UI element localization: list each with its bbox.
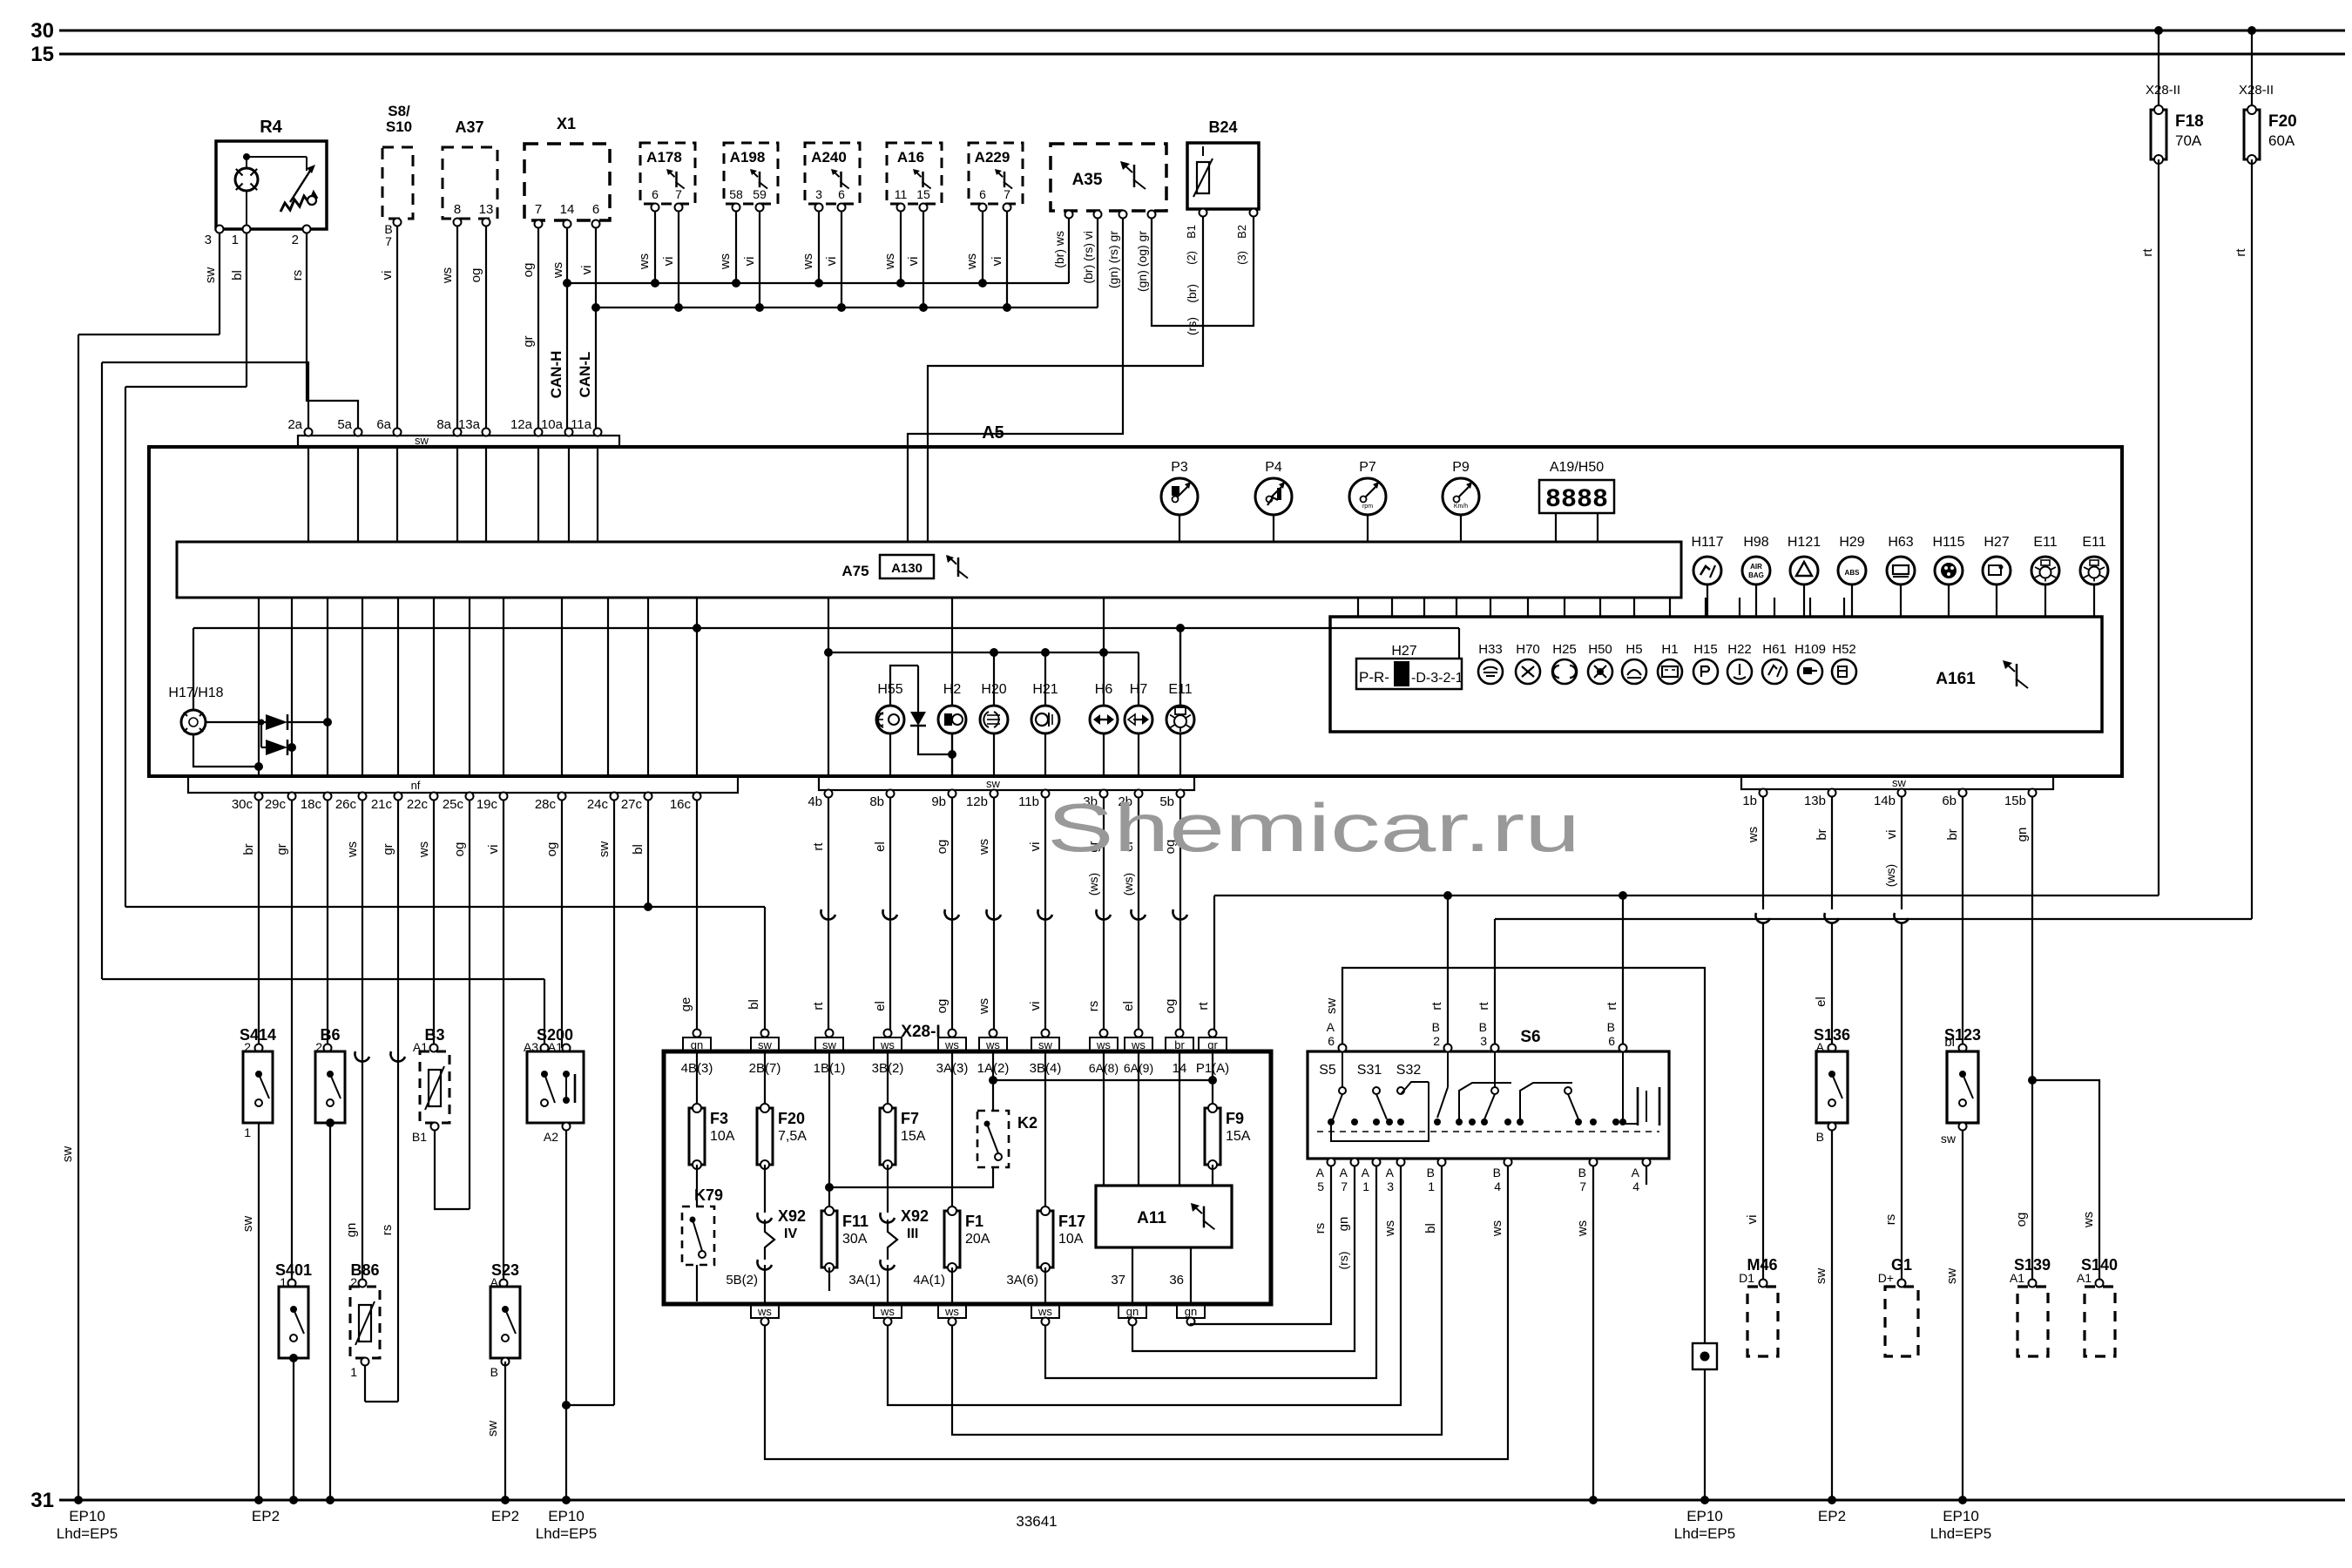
- svg-text:13b: 13b: [1804, 794, 1826, 808]
- svg-text:(rs): (rs): [1336, 1252, 1350, 1270]
- svg-text:sw: sw: [1941, 1132, 1957, 1146]
- svg-text:gn: gn: [2015, 828, 2030, 842]
- wire 26c to B86: [362, 800, 363, 1287]
- svg-text:ws: ws: [964, 253, 979, 270]
- wire A35-4 loop to B24: [1152, 216, 1254, 326]
- svg-text:F1: F1: [965, 1213, 983, 1230]
- wire H121 stem: [1803, 585, 1805, 617]
- svg-text:ws: ws: [977, 998, 991, 1015]
- svg-text:ws: ws: [440, 267, 455, 284]
- svg-text:H22: H22: [1727, 642, 1752, 657]
- svg-text:7: 7: [675, 187, 682, 201]
- X28-I pin 6A(9): [1135, 1030, 1143, 1037]
- fuse F7 15A: [887, 1051, 889, 1108]
- wire 14 to A11: [1179, 1051, 1180, 1186]
- wire A5 internal x578: [503, 598, 504, 776]
- svg-text:H15: H15: [1693, 642, 1718, 657]
- wire A5 internal x698: [607, 598, 609, 776]
- svg-text:B: B: [1578, 1166, 1586, 1179]
- wire K2 bottom to F11: [829, 1167, 993, 1187]
- strip pin 12b: [990, 790, 998, 798]
- wire 2a into A5: [308, 446, 309, 542]
- wire H117 stem: [1707, 585, 1708, 617]
- wire E11 stem top: [1179, 628, 1181, 706]
- wire branch to S140 (ws): [2032, 1080, 2099, 1283]
- wire stub H61: [1774, 598, 1775, 617]
- wire lamp stems: [993, 652, 995, 706]
- wire 3A(1) to S6-A3: [888, 1166, 1401, 1405]
- wire S136 to bus 31 (sw): [1831, 1130, 1833, 1500]
- svg-text:S6: S6: [1520, 1028, 1540, 1046]
- svg-text:59: 59: [753, 187, 767, 201]
- svg-text:vi: vi: [486, 845, 501, 855]
- svg-text:11a: 11a: [571, 417, 592, 432]
- svg-text:F18: F18: [2175, 112, 2204, 131]
- svg-text:vi: vi: [380, 271, 395, 280]
- control module A240: [805, 143, 860, 204]
- svg-text:7: 7: [385, 234, 392, 248]
- wire loop to S200-A3: [102, 978, 544, 980]
- B3 pin B1: [431, 1123, 439, 1131]
- svg-text:26c: 26c: [335, 797, 357, 812]
- svg-text:sw: sw: [415, 434, 429, 447]
- svg-text:3: 3: [205, 233, 212, 247]
- svg-text:el: el: [873, 1001, 888, 1011]
- strip pin 6a: [394, 429, 402, 436]
- svg-text:gn: gn: [1126, 1305, 1139, 1318]
- wire bl rail: [125, 906, 765, 908]
- svg-text:7: 7: [535, 202, 542, 217]
- svg-text:3: 3: [815, 187, 822, 201]
- svg-text:B: B: [1607, 1020, 1615, 1034]
- svg-text:B6: B6: [320, 1026, 340, 1044]
- svg-text:rs: rs: [1883, 1214, 1898, 1226]
- svg-text:ws: ws: [880, 1305, 895, 1318]
- svg-text:rt: rt: [2140, 248, 2155, 257]
- wire P7 stem: [1367, 515, 1369, 542]
- svg-text:H29: H29: [1839, 535, 1864, 550]
- svg-text:F20: F20: [778, 1110, 805, 1127]
- breakaway X92 IV: [764, 1165, 766, 1213]
- svg-text:A35: A35: [1072, 171, 1103, 189]
- X28-I pin 36: [1190, 1247, 1192, 1304]
- svg-text:ABS: ABS: [1845, 569, 1861, 577]
- wire A5 internal x297: [258, 598, 260, 776]
- wire S23 to bus 31: [504, 1362, 506, 1500]
- svg-text:A161: A161: [1936, 670, 1976, 688]
- svg-text:Lhd=EP5: Lhd=EP5: [57, 1525, 118, 1542]
- wire 11b down: [1044, 797, 1046, 1035]
- svg-text:Km/h: Km/h: [1454, 504, 1468, 510]
- svg-text:X28-II: X28-II: [2239, 83, 2274, 98]
- svg-text:ws: ws: [2081, 1212, 2096, 1228]
- svg-text:1: 1: [244, 1125, 251, 1139]
- fuse F17 10A: [1044, 1051, 1046, 1211]
- svg-text:P-R-: P-R-: [1359, 669, 1389, 686]
- svg-text:E11: E11: [2082, 535, 2105, 550]
- wire S6-A6 sw path: [1342, 968, 1705, 1343]
- wire bar-A161 stubs: [1357, 598, 1359, 617]
- svg-text:12b: 12b: [966, 794, 988, 809]
- svg-text:(2): (2): [1185, 251, 1198, 265]
- wire 11a into A5: [597, 446, 598, 542]
- svg-text:og: og: [469, 268, 483, 283]
- svg-text:9b: 9b: [931, 794, 946, 809]
- wire K2 top to F9 riser: [993, 1079, 1213, 1081]
- svg-text:(rs): (rs): [1185, 317, 1199, 335]
- svg-text:gn: gn: [344, 1223, 359, 1238]
- strip pin 24c: [611, 793, 618, 801]
- fuse F3 10A: [696, 1051, 698, 1108]
- control module A198: [724, 143, 778, 204]
- svg-text:ws: ws: [882, 253, 897, 270]
- svg-text:ws: ws: [1746, 827, 1761, 843]
- strip pin 22c: [430, 793, 438, 801]
- svg-text:ws: ws: [345, 841, 360, 858]
- wire 3b down: [1103, 797, 1105, 1035]
- svg-text:(gn) (og) gr: (gn) (og) gr: [1135, 231, 1149, 292]
- S200 pin A2: [563, 1123, 571, 1131]
- wire S6-B7 to bus 31: [1592, 1166, 1594, 1500]
- svg-text:A: A: [1362, 1166, 1370, 1179]
- svg-text:E11: E11: [2033, 535, 2057, 550]
- wire S6-B2 riser rt: [1447, 896, 1449, 1048]
- wire stub H22: [1739, 598, 1740, 617]
- svg-text:vi: vi: [1028, 1002, 1043, 1011]
- X28-I pin 3A(6): [1044, 1267, 1046, 1304]
- svg-text:6a: 6a: [376, 417, 391, 432]
- svg-text:27c: 27c: [621, 797, 643, 812]
- svg-text:4: 4: [1632, 1179, 1639, 1193]
- connector strip nf: [188, 776, 738, 793]
- strip pin 2a: [305, 429, 313, 436]
- wire stub H25: [1564, 598, 1565, 617]
- svg-text:13a: 13a: [458, 417, 481, 432]
- svg-text:ws: ws: [944, 1305, 959, 1318]
- svg-text:(br) (rs) vi: (br) (rs) vi: [1081, 231, 1095, 284]
- S6 bottom pins: [1328, 1159, 1335, 1166]
- driver module A161: [1330, 617, 2102, 732]
- wire A5 internal x498: [433, 598, 435, 776]
- wire S414 to bus 31: [258, 1123, 260, 1500]
- wire stub H15: [1705, 598, 1707, 617]
- svg-text:3A(6): 3A(6): [1006, 1273, 1038, 1288]
- svg-text:rs: rs: [380, 1225, 395, 1236]
- control module A178: [640, 143, 695, 204]
- svg-text:sw: sw: [758, 1038, 773, 1051]
- svg-text:25c: 25c: [443, 797, 464, 812]
- svg-text:sw: sw: [240, 1216, 255, 1233]
- icon H50 glyph: [1594, 666, 1606, 678]
- svg-text:el: el: [1121, 1001, 1136, 1011]
- svg-text:bl: bl: [747, 999, 761, 1010]
- svg-text:58: 58: [729, 187, 743, 201]
- svg-text:A229: A229: [975, 149, 1010, 166]
- icon H61 glyph: [1768, 666, 1777, 675]
- B24 pin B2: [1250, 209, 1258, 217]
- svg-text:rt: rt: [2234, 248, 2248, 257]
- wire P3 stem: [1179, 515, 1180, 542]
- svg-text:S8/: S8/: [388, 103, 410, 119]
- svg-text:4b: 4b: [808, 794, 822, 809]
- svg-text:18c: 18c: [301, 797, 322, 812]
- wire left drop 2: [125, 387, 126, 907]
- svg-text:br: br: [1174, 1038, 1185, 1051]
- svg-text:F17: F17: [1058, 1213, 1085, 1230]
- node CAN-H junction: [563, 279, 571, 287]
- svg-text:A178: A178: [646, 149, 682, 166]
- wire stub H70: [1527, 598, 1529, 617]
- svg-text:(br): (br): [1185, 284, 1199, 303]
- fuse F20 7,5A: [764, 1051, 766, 1108]
- svg-text:7,5A: 7,5A: [778, 1129, 807, 1144]
- svg-text:Lhd=EP5: Lhd=EP5: [1930, 1525, 1991, 1542]
- wire A35-3: [908, 218, 1123, 542]
- svg-text:III: III: [907, 1227, 918, 1241]
- svg-text:Lhd=EP5: Lhd=EP5: [536, 1525, 597, 1542]
- X28-I pin 4A(1): [951, 1267, 953, 1304]
- wire H2 internal: [951, 598, 953, 776]
- wire S401 to bus 31: [293, 1358, 294, 1500]
- svg-text:F7: F7: [901, 1110, 919, 1127]
- svg-text:gr: gr: [274, 843, 289, 855]
- svg-text:og: og: [452, 842, 467, 857]
- lamp H21 icon: [1036, 713, 1048, 726]
- wire 37 to S6-A7: [1132, 1166, 1355, 1351]
- wire H17 bottom: [193, 734, 259, 767]
- wire rail F20-rt: [1495, 918, 2252, 920]
- svg-text:sw: sw: [822, 1038, 837, 1051]
- svg-text:rs: rs: [1313, 1223, 1328, 1234]
- svg-text:15b: 15b: [2004, 794, 2026, 808]
- svg-text:R4: R4: [260, 118, 282, 137]
- icon H25 glyph: [1553, 666, 1576, 678]
- wire 28c to S200-A1: [561, 800, 563, 1048]
- svg-text:A2: A2: [544, 1130, 558, 1144]
- diode D2: [260, 722, 262, 747]
- svg-text:B24: B24: [1208, 118, 1237, 136]
- lamp H55 icon: [878, 713, 883, 727]
- svg-text:H5: H5: [1625, 642, 1642, 657]
- svg-text:rt: rt: [811, 842, 826, 851]
- lamp H2 icon: [944, 713, 952, 726]
- wire stub H50: [1599, 598, 1601, 617]
- wire 5b down: [1179, 797, 1181, 1035]
- svg-text:P4: P4: [1265, 460, 1282, 475]
- wire stub H52: [1843, 598, 1845, 617]
- svg-text:5a: 5a: [337, 417, 352, 432]
- wire 4b internal: [828, 598, 829, 776]
- svg-text:A: A: [1386, 1166, 1395, 1179]
- strip pin 29c: [288, 793, 296, 801]
- svg-text:ws: ws: [637, 253, 652, 270]
- wire 3A(6) to S6-A1: [1045, 1166, 1376, 1378]
- splice EP10 box: [1693, 1343, 1717, 1369]
- A35 pin 1: [1065, 211, 1073, 219]
- svg-text:H1: H1: [1661, 642, 1678, 657]
- wire E11 stem: [2044, 585, 2046, 617]
- svg-text:12a: 12a: [510, 417, 533, 432]
- svg-text:sw: sw: [60, 1146, 75, 1163]
- svg-text:BAG: BAG: [1748, 571, 1764, 579]
- wire B86 to splice rail: [364, 1365, 366, 1402]
- svg-text:36: 36: [1169, 1273, 1184, 1288]
- strip pin 16c: [693, 793, 701, 801]
- svg-text:A75: A75: [841, 563, 868, 579]
- svg-text:2: 2: [1433, 1034, 1440, 1048]
- svg-text:2: 2: [292, 233, 299, 247]
- strip pin 21c: [395, 793, 402, 801]
- wire vi bus (CAN-L rail): [596, 307, 1098, 308]
- svg-text:S5: S5: [1319, 1063, 1336, 1078]
- svg-text:14b: 14b: [1874, 794, 1896, 808]
- wire 14b to G1 (rs): [1901, 796, 1903, 909]
- svg-text:11b: 11b: [1018, 794, 1039, 809]
- svg-text:(ws): (ws): [1121, 873, 1135, 896]
- wire F20 rt: [2251, 159, 2253, 919]
- svg-text:S32: S32: [1396, 1063, 1422, 1078]
- icon H33 glyph: [1484, 667, 1497, 670]
- wire 6A(8) to A11: [1103, 1051, 1105, 1186]
- svg-text:EP10: EP10: [69, 1508, 105, 1524]
- svg-text:D+: D+: [1878, 1271, 1894, 1285]
- svg-text:H33: H33: [1478, 642, 1503, 657]
- wire 5a into A5: [357, 446, 359, 542]
- module A130: [880, 555, 934, 578]
- svg-text:rt: rt: [1605, 1002, 1619, 1010]
- svg-text:H121: H121: [1788, 535, 1821, 550]
- wire 6b to S123 (bl): [1962, 796, 1963, 1048]
- wire B6 to bus 31: [329, 1123, 331, 1500]
- svg-text:16c: 16c: [670, 797, 692, 812]
- svg-text:P3: P3: [1171, 460, 1188, 475]
- wire splice rail to 24c: [566, 1404, 614, 1406]
- wire A35-2 to vi bus: [1097, 218, 1098, 308]
- svg-text:rs: rs: [290, 270, 305, 281]
- svg-text:og: og: [1163, 999, 1178, 1014]
- pcb A75: [177, 542, 1681, 598]
- svg-text:(ws): (ws): [1883, 864, 1897, 887]
- wire H115 stem: [1948, 585, 1950, 617]
- svg-text:A: A: [1316, 1166, 1325, 1179]
- S6 pin A6: [1339, 1044, 1347, 1052]
- svg-text:rt: rt: [1196, 1002, 1211, 1010]
- strip pin 11b: [1042, 790, 1050, 798]
- svg-text:(br) ws: (br) ws: [1052, 231, 1066, 268]
- svg-text:6: 6: [979, 187, 986, 201]
- svg-text:og: og: [2014, 1213, 2029, 1227]
- wire P4 stem: [1273, 515, 1274, 542]
- lamp H7 icon: [1128, 714, 1135, 725]
- svg-text:A11: A11: [1137, 1209, 1166, 1227]
- svg-text:gr: gr: [1207, 1038, 1218, 1051]
- control module A229: [969, 143, 1023, 204]
- wire left drop to bus 31 (sw): [78, 335, 79, 1500]
- svg-text:sw: sw: [597, 841, 612, 858]
- X28-I pin 2B(7): [761, 1030, 769, 1037]
- breakaway X92 III: [887, 1165, 889, 1213]
- svg-text:H27: H27: [1984, 535, 2009, 550]
- svg-text:H117: H117: [1691, 535, 1723, 550]
- svg-text:B: B: [1493, 1166, 1501, 1179]
- svg-text:K79: K79: [694, 1186, 723, 1204]
- svg-text:B: B: [1432, 1020, 1440, 1034]
- svg-text:3A(1): 3A(1): [848, 1273, 881, 1288]
- wire P9 stem: [1460, 515, 1462, 542]
- svg-text:1: 1: [350, 1365, 357, 1379]
- svg-text:1b: 1b: [1742, 794, 1757, 808]
- strip pin 2b: [1135, 790, 1143, 798]
- icon H52 glyph: [1838, 666, 1847, 677]
- control module A16: [887, 143, 942, 204]
- svg-text:og: og: [521, 263, 536, 278]
- icon H15 glyph: [1701, 666, 1709, 677]
- svg-text:10a: 10a: [541, 417, 564, 432]
- svg-text:2a: 2a: [287, 417, 302, 432]
- wire F18 rt: [2158, 159, 2159, 896]
- fuse F11 30A: [828, 1051, 830, 1211]
- svg-text:7: 7: [1579, 1179, 1586, 1193]
- strip pin 25c: [466, 793, 474, 801]
- lamp E11 icon: [1175, 707, 1186, 714]
- svg-text:60A: 60A: [2268, 132, 2295, 149]
- R4 pin 2: [303, 226, 311, 233]
- strip pin 19c: [500, 793, 508, 801]
- svg-text:B: B: [1427, 1166, 1435, 1179]
- strip pin 5a: [355, 429, 362, 436]
- svg-text:7: 7: [1004, 187, 1010, 201]
- strip pin 5b: [1177, 790, 1185, 798]
- wire 8b down: [889, 797, 891, 1035]
- wire A5 internal x335: [291, 598, 293, 776]
- S8/S10 pin B7: [394, 219, 402, 226]
- svg-text:vi: vi: [742, 257, 757, 267]
- svg-text:A1: A1: [2077, 1271, 2092, 1285]
- wire S123 to bus 31: [1962, 1130, 1963, 1500]
- A35 pin 2: [1094, 211, 1102, 219]
- svg-text:sw: sw: [1944, 1268, 1959, 1285]
- wire B24-B1: [928, 216, 1203, 542]
- X28-I pin 37: [1132, 1247, 1133, 1304]
- svg-text:el: el: [873, 841, 888, 852]
- icon E11b glyph: [2090, 560, 2099, 565]
- svg-text:11: 11: [895, 187, 908, 201]
- svg-text:4A(1): 4A(1): [913, 1273, 945, 1288]
- svg-text:CAN-L: CAN-L: [577, 352, 593, 398]
- svg-text:31: 31: [30, 1489, 54, 1512]
- strip pin 30c: [255, 793, 263, 801]
- svg-text:A5: A5: [982, 423, 1004, 443]
- wire 4A(1) to S6-B1: [952, 1166, 1442, 1435]
- wire splice to bus 31: [1704, 1369, 1706, 1500]
- svg-text:15: 15: [916, 187, 930, 201]
- strip pin 10a: [565, 429, 573, 436]
- X28-I pin 6A(8): [1100, 1030, 1108, 1037]
- svg-text:og: og: [544, 842, 559, 857]
- wire A5 internal x800: [696, 598, 698, 776]
- strip pin 11a: [594, 429, 602, 436]
- wire stub H33: [1490, 598, 1491, 617]
- svg-text:14: 14: [560, 202, 575, 217]
- relay K79: [696, 1165, 698, 1206]
- svg-text:sw: sw: [1814, 1268, 1828, 1285]
- strip pin 15b: [2029, 789, 2037, 797]
- svg-text:15A: 15A: [1226, 1129, 1251, 1144]
- wire rail L1 (lamp rail): [828, 652, 1139, 653]
- svg-text:ws: ws: [757, 1305, 772, 1318]
- svg-text:bl: bl: [631, 844, 645, 855]
- lamp H20 icon: [983, 712, 998, 727]
